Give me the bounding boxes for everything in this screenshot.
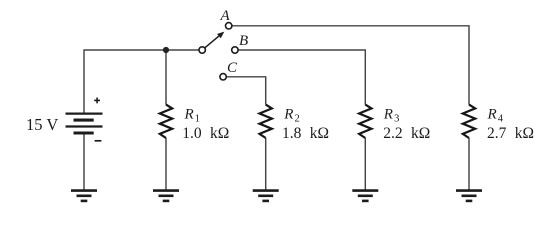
switch contact C [220, 74, 226, 80]
switch contact A [226, 23, 232, 29]
node junction dot [163, 47, 169, 53]
switch contact B [232, 47, 238, 53]
ground R1 [153, 191, 179, 201]
resistor R3 zigzag [359, 105, 371, 138]
svg-text:C: C [227, 60, 238, 76]
battery BT1 15 V [66, 114, 103, 133]
wire battery top to main node [84, 50, 199, 114]
switch SW1 common pole [199, 47, 205, 53]
resistor R4 zigzag [463, 105, 475, 138]
svg-text:R: R [283, 107, 293, 123]
wire switch C to R2 top [226, 77, 266, 105]
wire switch B to R3 top [238, 50, 365, 105]
svg-text:R: R [184, 107, 194, 123]
svg-text:R: R [487, 107, 497, 123]
switch SW1 arm with arrowhead [205, 32, 225, 48]
svg-text:1.8 kΩ: 1.8 kΩ [282, 125, 329, 142]
svg-text:1: 1 [195, 113, 200, 124]
svg-text:3: 3 [394, 113, 399, 124]
wire R3 bottom to ground [364, 138, 366, 190]
ground battery [71, 191, 97, 201]
svg-text:2.2 kΩ: 2.2 kΩ [383, 125, 430, 142]
ground R3 [352, 191, 378, 201]
svg-text:4: 4 [498, 113, 504, 124]
wire battery bottom to ground [83, 133, 85, 190]
wire R1 bottom to ground [165, 138, 167, 190]
resistor R1 zigzag [160, 105, 172, 138]
battery plus sign [94, 98, 100, 104]
wire switch A to R4 top [232, 26, 469, 105]
svg-text:B: B [239, 33, 248, 49]
resistor R2 zigzag [260, 105, 272, 138]
svg-text:2.7 kΩ: 2.7 kΩ [487, 125, 534, 142]
svg-text:15 V: 15 V [26, 115, 58, 134]
svg-text:R: R [383, 107, 393, 123]
svg-text:1.0 kΩ: 1.0 kΩ [182, 125, 229, 142]
svg-text:A: A [220, 8, 231, 24]
battery minus sign [95, 140, 102, 142]
ground R4 [456, 191, 482, 201]
wire R2 bottom to ground [265, 138, 267, 190]
wire node to R1 top [165, 50, 167, 105]
wire R4 bottom to ground [468, 138, 470, 190]
svg-text:2: 2 [295, 113, 300, 124]
ground R2 [253, 191, 279, 201]
